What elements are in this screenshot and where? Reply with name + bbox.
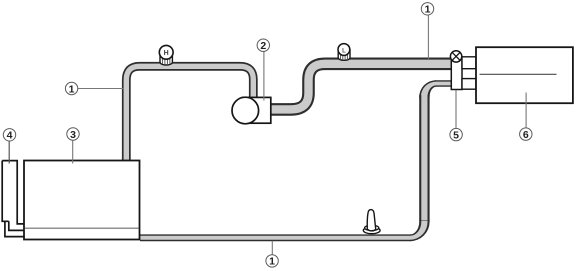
leader line for label 1 (top right) bbox=[427, 15, 429, 59]
label 1 (top right) bbox=[421, 3, 433, 16]
svg-text:L: L bbox=[342, 48, 346, 54]
wire pipe: tank riser to pump inlet bbox=[126, 66, 253, 162]
label 4 (gauge) bbox=[3, 129, 15, 142]
svg-text:1: 1 bbox=[69, 83, 75, 95]
leader line for label 2 bbox=[263, 51, 265, 100]
valve port stub upper bbox=[462, 57, 476, 69]
svg-text:1: 1 bbox=[425, 4, 431, 16]
svg-text:1: 1 bbox=[269, 256, 275, 268]
tank T3 (reservoir) bbox=[24, 161, 140, 240]
label 5 (valve) bbox=[450, 128, 462, 141]
wire pipe: return, bottom horizontal run to tank bbox=[140, 234, 411, 241]
pump P2 bbox=[232, 97, 271, 124]
wire pipe: return, vertical drop bbox=[419, 95, 429, 221]
unit U6 (box) bbox=[476, 47, 573, 103]
valve handwheel circle with X bbox=[450, 51, 461, 62]
label 2 (pump) bbox=[257, 39, 269, 52]
label 1 (bottom) bbox=[266, 255, 278, 268]
wire pipe: return, upper elbow bbox=[419, 80, 436, 98]
leader line for label 1 (left) bbox=[77, 88, 124, 90]
label 3 (tank) bbox=[67, 128, 79, 141]
bleeder fitting L on feed pipe bbox=[338, 44, 350, 61]
wire pipe: pump outlet feed to valve bbox=[268, 64, 452, 110]
svg-text:H: H bbox=[164, 50, 169, 57]
wire pipe: return, lower elbow bbox=[410, 220, 430, 241]
drain nozzle on bottom pipe bbox=[363, 210, 380, 234]
valve V5 body bbox=[450, 51, 476, 90]
wire pipe: return, short run from valve bbox=[435, 80, 453, 87]
leader line for label 4 bbox=[8, 141, 10, 164]
label 6 (unit box) bbox=[520, 128, 532, 141]
leader line for label 5 bbox=[455, 90, 457, 129]
svg-text:6: 6 bbox=[523, 129, 529, 141]
svg-text:2: 2 bbox=[260, 40, 266, 52]
svg-text:3: 3 bbox=[70, 129, 76, 141]
label 1 (left) bbox=[65, 82, 77, 95]
level gauge G4 (sight glass) bbox=[2, 161, 23, 237]
svg-text:4: 4 bbox=[7, 130, 13, 142]
leader line for label 3 bbox=[72, 140, 74, 163]
leader line for label 1 (bottom) bbox=[271, 241, 273, 255]
valve port stub lower bbox=[462, 79, 476, 90]
svg-text:5: 5 bbox=[453, 129, 459, 141]
leader line for label 6 bbox=[525, 93, 527, 129]
bleeder fitting H on left pipe bbox=[159, 45, 173, 65]
